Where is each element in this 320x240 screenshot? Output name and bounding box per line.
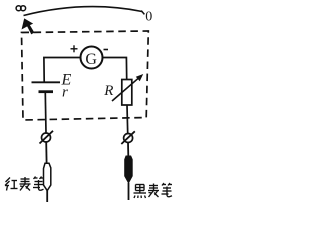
黑 [136,184,145,186]
wire: resistor down to right jack [126,105,129,134]
svg-text:G: G [85,51,97,68]
arc end tick at 0 [141,11,144,15]
dashed meter box [22,31,149,120]
wire: right jack to black probe [127,143,129,157]
wire: below black probe [128,183,130,200]
svg-text:0: 0 [145,10,152,25]
wire: G to resistor (right horizontal + down) [102,58,127,80]
wire: below red probe [46,191,48,202]
black probe body (filled) [125,156,133,183]
battery E,r [32,81,61,83]
red probe body (outlined) [44,163,51,190]
scale arc [24,7,143,16]
笔 [34,177,36,180]
meter needle [22,19,34,34]
plus sign [71,45,78,52]
笔 [162,183,164,186]
wire: battery top to G (left branch + horizontal) [44,58,81,82]
红 [6,178,11,183]
svg-text:r: r [62,85,68,101]
infinity symbol (scale left label) [16,6,26,11]
wire: battery to left jack [44,93,47,133]
label 黑表笔 (black probe) [134,183,173,198]
left jack (socket) [42,133,51,142]
label 红表笔 (red probe) [5,177,44,191]
rheostat arrow [112,77,140,101]
minus sign [104,49,109,51]
wire: left jack to red probe [45,142,47,163]
right jack (socket) [124,134,133,143]
resistor R body [122,80,132,106]
galvanometer G [81,47,103,69]
表 [24,177,26,184]
svg-text:R: R [103,83,113,99]
表 [153,184,155,191]
